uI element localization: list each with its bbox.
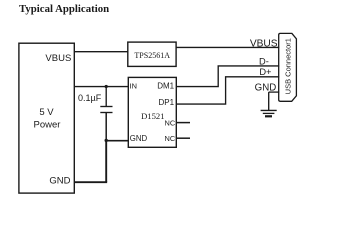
wire capacitor top lead [105, 87, 107, 107]
stub NC pin upper [176, 122, 190, 124]
svg-text:D-: D- [259, 56, 269, 66]
wire VBUS from PS1 to U1 [75, 51, 129, 53]
power supply PS1 (5 V Power) box [19, 43, 74, 193]
wire ground node to U2 GND pin [106, 140, 129, 142]
capacitor C1 plates [100, 107, 112, 113]
svg-text:D1521: D1521 [141, 111, 164, 121]
svg-text:NC: NC [165, 119, 176, 128]
svg-text:GND: GND [130, 134, 148, 143]
junction dot at ground node [105, 139, 108, 142]
svg-text:Power: Power [34, 120, 61, 131]
svg-text:Typical Application: Typical Application [19, 3, 109, 15]
wire GND drop to ground [268, 92, 270, 110]
svg-text:NC: NC [165, 134, 176, 143]
IC U1 TPS2561A box [128, 42, 176, 66]
svg-text:0.1µF: 0.1µF [78, 93, 102, 103]
label 5 V Power [34, 107, 61, 131]
svg-text:DM1: DM1 [157, 82, 174, 91]
wire VBUS from U1 to USB connector [176, 46, 279, 48]
wire GND stub to connector [269, 91, 280, 93]
wire ground return to PS1 GND [75, 181, 108, 183]
svg-text:VBUS: VBUS [45, 53, 71, 64]
wire capacitor bottom lead [105, 113, 107, 141]
svg-text:USB Connector1: USB Connector1 [284, 38, 293, 94]
svg-text:TPS2561A: TPS2561A [134, 51, 170, 60]
svg-text:D+: D+ [259, 67, 271, 77]
USB connector J1 outline [279, 33, 297, 101]
ground symbol [261, 110, 277, 116]
svg-text:GND: GND [49, 176, 70, 187]
svg-text:IN: IN [130, 82, 137, 91]
IC U2 D1521 box [128, 77, 176, 147]
svg-text:5 V: 5 V [39, 107, 54, 118]
wire IN from PS1 to U2 [75, 86, 129, 88]
svg-text:DP1: DP1 [159, 98, 175, 107]
wire DM1 from U2 [176, 66, 279, 87]
wire DP1 from U2 [176, 77, 279, 104]
wire ground node down [105, 140, 107, 183]
stub NC pin lower [176, 137, 190, 139]
junction dot at capacitor top node [105, 85, 108, 88]
svg-text:VBUS: VBUS [250, 38, 278, 49]
